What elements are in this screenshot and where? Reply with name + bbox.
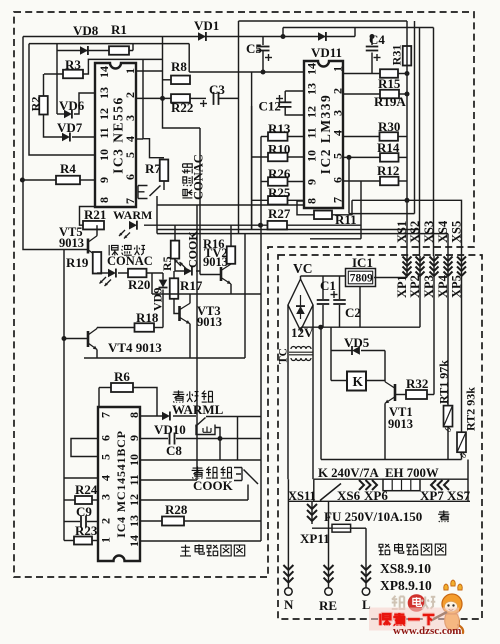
svg-text:R19: R19 (66, 255, 89, 270)
svg-text:WARML: WARML (172, 402, 224, 417)
svg-text:2: 2 (331, 88, 345, 94)
svg-text:R21: R21 (84, 207, 106, 222)
svg-text:VD1: VD1 (194, 18, 219, 33)
svg-text:R2: R2 (29, 97, 43, 112)
svg-text:XS4: XS4 (436, 220, 450, 243)
svg-text:R22: R22 (171, 100, 193, 115)
svg-text:XS6: XS6 (337, 488, 361, 503)
svg-text:9013: 9013 (203, 255, 228, 269)
svg-text:WARM: WARM (113, 208, 152, 222)
svg-text:R20: R20 (128, 277, 150, 292)
svg-text:R4: R4 (60, 161, 76, 176)
svg-text:R8: R8 (171, 59, 187, 74)
svg-text:R1: R1 (111, 22, 127, 37)
svg-text:IC3 NE556: IC3 NE556 (111, 96, 126, 174)
svg-text:R7: R7 (145, 161, 161, 176)
svg-text:FU 250V/10A.150: FU 250V/10A.150 (324, 509, 422, 524)
svg-text:C12: C12 (259, 99, 281, 114)
svg-text:R14: R14 (377, 140, 400, 155)
svg-text:10: 10 (305, 150, 319, 162)
svg-text:EH 700W: EH 700W (385, 466, 439, 480)
svg-text:XP8.9.10: XP8.9.10 (380, 578, 432, 593)
svg-text:6: 6 (331, 177, 345, 183)
svg-text:3: 3 (99, 494, 113, 500)
svg-text:VD6: VD6 (59, 98, 85, 113)
svg-text:K: K (353, 374, 364, 389)
svg-text:R32: R32 (406, 376, 428, 391)
svg-text:12: 12 (305, 106, 319, 118)
svg-text:R17: R17 (180, 278, 203, 293)
svg-text:C5: C5 (246, 41, 262, 56)
svg-text:VD9: VD9 (151, 288, 165, 311)
svg-text:C1: C1 (320, 278, 336, 293)
svg-text:14: 14 (97, 66, 111, 78)
svg-text:R6: R6 (114, 369, 130, 384)
svg-text:R18: R18 (136, 310, 159, 325)
svg-text:R13: R13 (268, 121, 291, 136)
svg-text:5: 5 (99, 454, 113, 460)
svg-text:9013: 9013 (197, 315, 222, 329)
svg-text:R23: R23 (75, 523, 98, 538)
svg-text:XS1: XS1 (395, 221, 409, 243)
svg-text:9: 9 (127, 435, 141, 441)
svg-text:1: 1 (123, 68, 137, 74)
svg-text:XP6: XP6 (364, 488, 388, 503)
svg-text:R26: R26 (268, 166, 291, 181)
svg-text:C9: C9 (76, 504, 92, 519)
svg-text:1: 1 (331, 66, 345, 72)
svg-text:8: 8 (127, 412, 141, 418)
svg-text:1: 1 (99, 537, 113, 543)
svg-text:11: 11 (97, 127, 111, 138)
svg-text:6: 6 (99, 435, 113, 441)
svg-text:VC: VC (293, 261, 313, 276)
svg-text:13: 13 (97, 87, 111, 99)
svg-text:VT4 9013: VT4 9013 (108, 340, 162, 355)
svg-text:7: 7 (331, 197, 345, 203)
svg-text:R30: R30 (378, 119, 400, 134)
svg-text:R27: R27 (268, 206, 291, 221)
svg-text:www.dzsc.com: www.dzsc.com (393, 625, 461, 637)
svg-text:XS8.9.10: XS8.9.10 (380, 561, 431, 576)
svg-text:R19A: R19A (374, 94, 406, 109)
svg-text:14: 14 (305, 63, 319, 75)
svg-text:12: 12 (97, 108, 111, 120)
svg-text:7: 7 (123, 198, 137, 204)
svg-text:XS3: XS3 (422, 221, 436, 243)
svg-text:R28: R28 (165, 502, 188, 517)
svg-text:XP7: XP7 (420, 488, 444, 503)
svg-text:IC2 LM339: IC2 LM339 (318, 94, 333, 175)
svg-text:14: 14 (127, 535, 141, 547)
svg-text:RT2 93k: RT2 93k (464, 387, 478, 431)
svg-text:COOK: COOK (186, 231, 200, 268)
svg-text:R12: R12 (377, 163, 399, 178)
svg-text:9013: 9013 (388, 417, 413, 431)
svg-text:TC: TC (278, 348, 290, 364)
svg-text:7809: 7809 (350, 272, 373, 284)
svg-text:R5: R5 (160, 256, 174, 271)
svg-text:8: 8 (97, 197, 111, 203)
svg-text:8: 8 (305, 198, 319, 204)
svg-text:11: 11 (305, 127, 319, 138)
svg-text:IC4 MC14541BCP: IC4 MC14541BCP (114, 430, 128, 538)
svg-text:7: 7 (99, 412, 113, 418)
svg-text:13: 13 (127, 515, 141, 527)
svg-text:XS7: XS7 (447, 488, 471, 503)
svg-text:12: 12 (127, 494, 141, 506)
svg-text:C2: C2 (345, 305, 361, 320)
svg-text:VD11: VD11 (311, 45, 342, 60)
svg-text:K 240V/7A: K 240V/7A (318, 466, 380, 480)
svg-text:CONAC: CONAC (192, 154, 206, 200)
svg-text:10: 10 (127, 454, 141, 466)
svg-text:9: 9 (305, 179, 319, 185)
svg-text:VD8: VD8 (73, 23, 99, 38)
svg-text:R24: R24 (75, 482, 98, 497)
svg-text:R15: R15 (378, 76, 401, 91)
svg-text:XP11: XP11 (300, 531, 330, 546)
svg-text:13: 13 (305, 83, 319, 95)
svg-text:R3: R3 (65, 57, 81, 72)
svg-text:RT1 97k: RT1 97k (437, 360, 451, 404)
svg-text:VD7: VD7 (57, 120, 83, 135)
svg-text:RE: RE (319, 598, 337, 613)
svg-text:VD5: VD5 (344, 335, 370, 350)
svg-text:XP1: XP1 (395, 275, 409, 298)
svg-text:4: 4 (99, 475, 113, 481)
svg-text:9013: 9013 (59, 236, 84, 250)
svg-text:10: 10 (97, 149, 111, 161)
svg-text:R31: R31 (390, 45, 404, 66)
svg-text:2: 2 (99, 518, 113, 524)
svg-text:N: N (284, 597, 294, 612)
svg-text:R10: R10 (268, 142, 290, 157)
svg-text:C3: C3 (209, 82, 225, 97)
svg-text:6: 6 (123, 174, 137, 180)
svg-text:XS2: XS2 (408, 221, 422, 243)
svg-text:9: 9 (97, 177, 111, 183)
svg-text:COOK: COOK (193, 478, 234, 493)
svg-text:11: 11 (127, 474, 141, 485)
svg-text:C8: C8 (166, 443, 182, 458)
svg-text:XS5: XS5 (450, 221, 464, 243)
svg-text:XS11: XS11 (288, 489, 316, 503)
svg-text:CONAC: CONAC (107, 254, 153, 268)
svg-text:R25: R25 (268, 185, 291, 200)
